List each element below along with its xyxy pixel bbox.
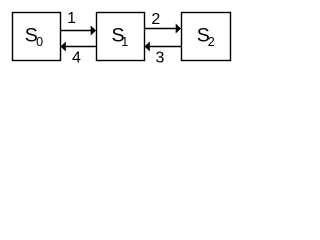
svg-text:4: 4	[72, 50, 81, 67]
svg-text:2: 2	[208, 35, 215, 49]
svg-text:1: 1	[67, 10, 76, 27]
state box S0	[13, 13, 61, 61]
label S2	[197, 25, 215, 49]
svg-text:0: 0	[36, 35, 43, 49]
label S1	[112, 25, 129, 49]
label 3	[156, 50, 165, 67]
svg-text:2: 2	[151, 11, 160, 28]
state box S1	[97, 13, 145, 61]
svg-text:3: 3	[156, 50, 165, 67]
svg-text:1: 1	[121, 35, 128, 49]
wire arrow 1: S0 to S1	[61, 26, 97, 36]
label 1	[67, 10, 76, 27]
label 4	[72, 50, 81, 67]
wire arrow 4: S1 to S0	[61, 42, 97, 52]
label 2	[151, 11, 160, 28]
wire arrow 2: S1 to S2	[145, 24, 182, 34]
state box S2	[182, 13, 231, 61]
wire arrow 3: S2 to S1	[145, 42, 182, 52]
label S0	[25, 25, 43, 49]
